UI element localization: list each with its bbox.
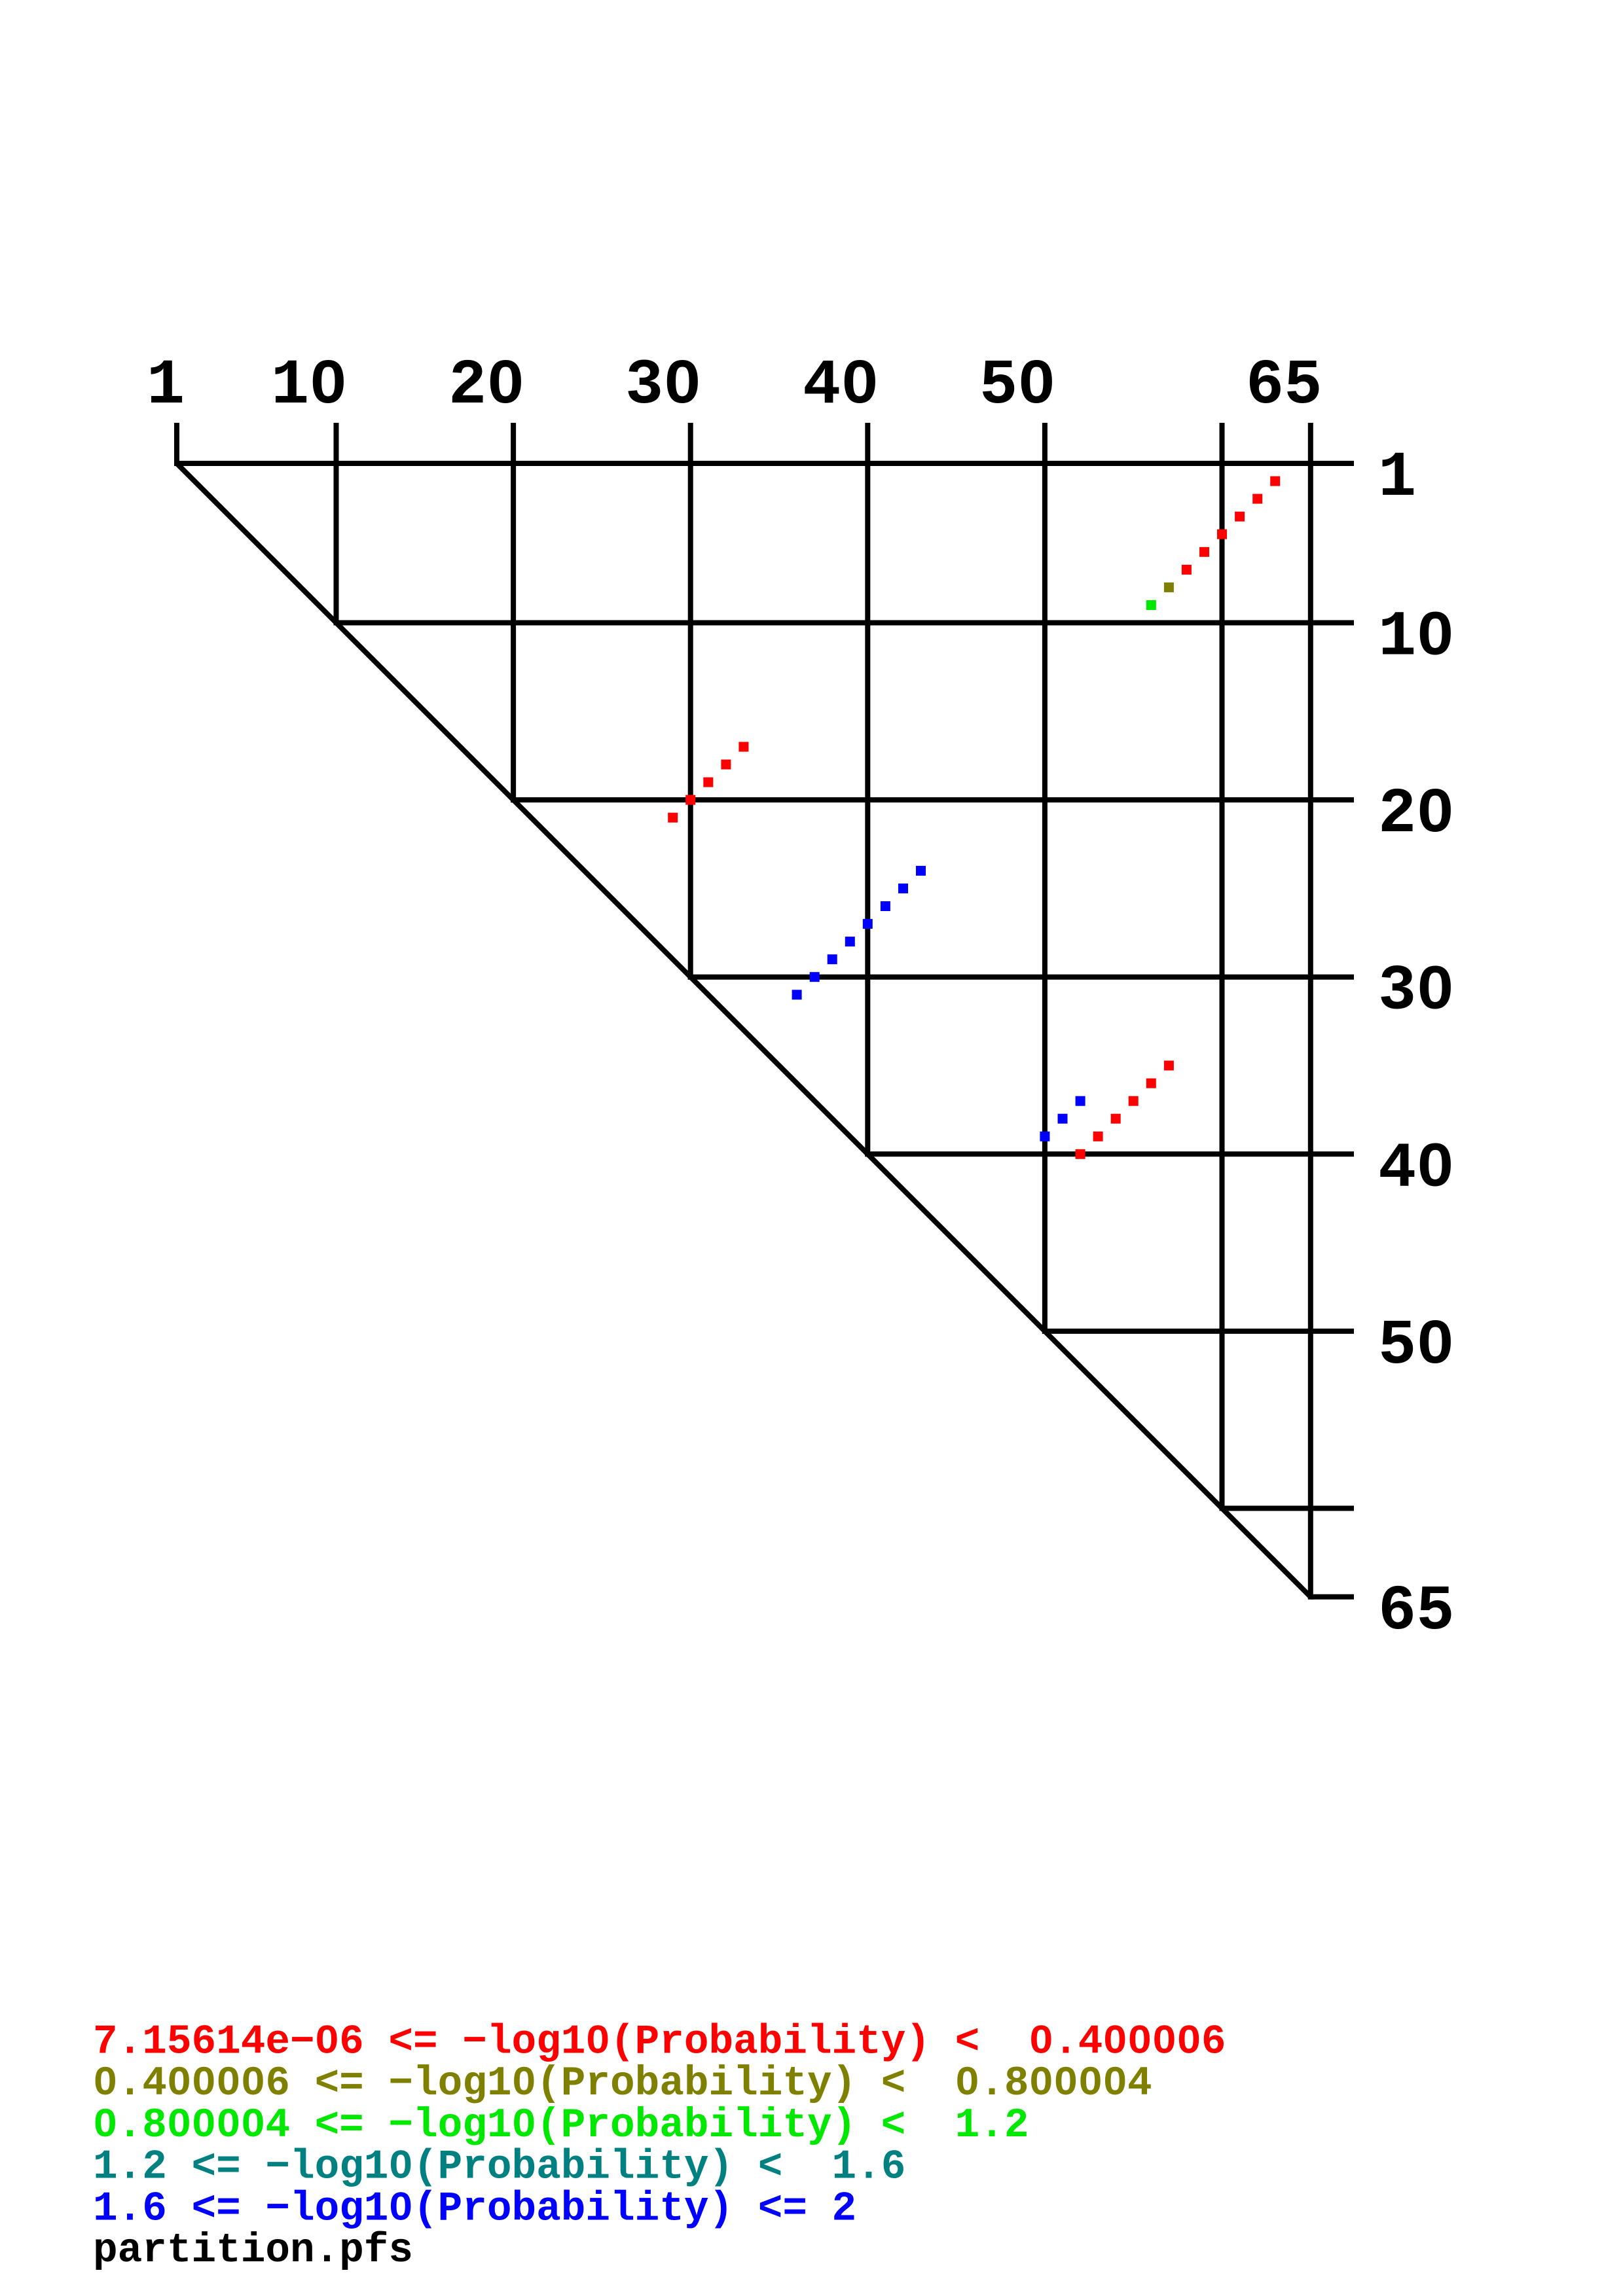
svg-text:0.800004 <= −log10(Probability: 0.800004 <= −log10(Probability) < 1.2 [93,2102,1029,2149]
svg-text:10: 10 [1378,602,1454,674]
svg-text:40: 40 [1378,1133,1454,1205]
svg-text:20: 20 [448,350,524,422]
svg-text:40: 40 [803,350,879,422]
svg-text:10: 10 [271,350,347,422]
svg-text:1.2 <= −log10(Probability) <: 1.2 <= −log10(Probability) < 1.6 [93,2144,905,2191]
svg-text:30: 30 [625,350,701,422]
svg-text:partition.pfs: partition.pfs [93,2227,413,2274]
svg-text:50: 50 [1378,1310,1454,1382]
svg-text:20: 20 [1378,779,1454,851]
svg-text:65: 65 [1378,1576,1454,1648]
svg-text:1: 1 [147,350,185,422]
svg-text:7.15614e−06 <= −log10(Probabil: 7.15614e−06 <= −log10(Probability) < 0.4… [93,2019,1226,2066]
svg-text:30: 30 [1378,956,1454,1028]
svg-text:65: 65 [1246,350,1322,422]
svg-text:1.6 <= −log10(Probability) <=: 1.6 <= −log10(Probability) <= 2 [93,2185,856,2232]
svg-text:1: 1 [1378,442,1416,514]
svg-text:50: 50 [979,350,1055,422]
